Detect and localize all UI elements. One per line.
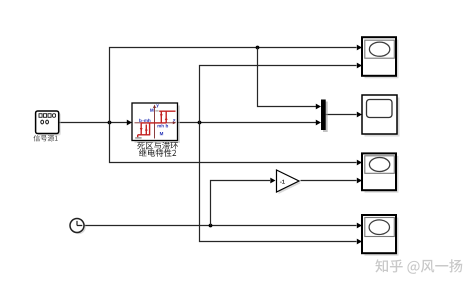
signal source block 信号源1: [36, 111, 61, 136]
label 继电特性2: [139, 149, 176, 157]
relay icon blue labels: [139, 104, 175, 135]
wire: mux output to scope input: [326, 112, 362, 118]
node: junction on relay output wire: [198, 121, 202, 125]
xy graph 1: [362, 37, 399, 78]
node: junction on signal wire: [108, 121, 112, 125]
clock block: [70, 219, 86, 235]
wire: clock output to XY graph 4 input 1: [84, 223, 362, 229]
xy graph 4: [362, 215, 399, 256]
relay icon x-axis: [135, 121, 177, 124]
scope block: [362, 95, 400, 137]
label 死区与滞环: [137, 142, 178, 150]
gain block -1: [277, 170, 302, 194]
mux block: [321, 100, 328, 133]
wire: clock branch up to gain input: [211, 178, 276, 226]
node: junction on top wire: [256, 46, 260, 50]
wire: signal source output to relay input: [59, 120, 132, 126]
wire: relay branch down to XY graph 4 input 2: [200, 123, 363, 245]
watermark 知乎 @风一扬: [375, 259, 462, 274]
wire: relay branch up to XY graph 1 input 2: [200, 63, 363, 123]
label 信号源1: [34, 135, 58, 142]
wire: signal branch down to XY graph 3 input 1: [110, 123, 363, 166]
relay icon y-axis: [153, 105, 156, 139]
wire: signal branch up and across top to XY graph 1 input 1: [110, 45, 363, 123]
relay icon red characteristic curve: [138, 111, 176, 137]
relay icon gray base mark: [135, 137, 141, 139]
relay icon gray level dashes: [155, 110, 158, 112]
relay subsystem block 死区与滞环继电特性2: [132, 103, 180, 143]
wire: branch down from top wire to mux input 1: [258, 48, 322, 110]
relay icon red curve arrows: [140, 114, 168, 131]
wire: relay output to mux input 2: [178, 120, 322, 126]
xy graph 3: [362, 153, 399, 192]
wire: gain output to XY graph 3 input 2: [301, 178, 363, 184]
node: junction on clock wire: [209, 224, 213, 228]
